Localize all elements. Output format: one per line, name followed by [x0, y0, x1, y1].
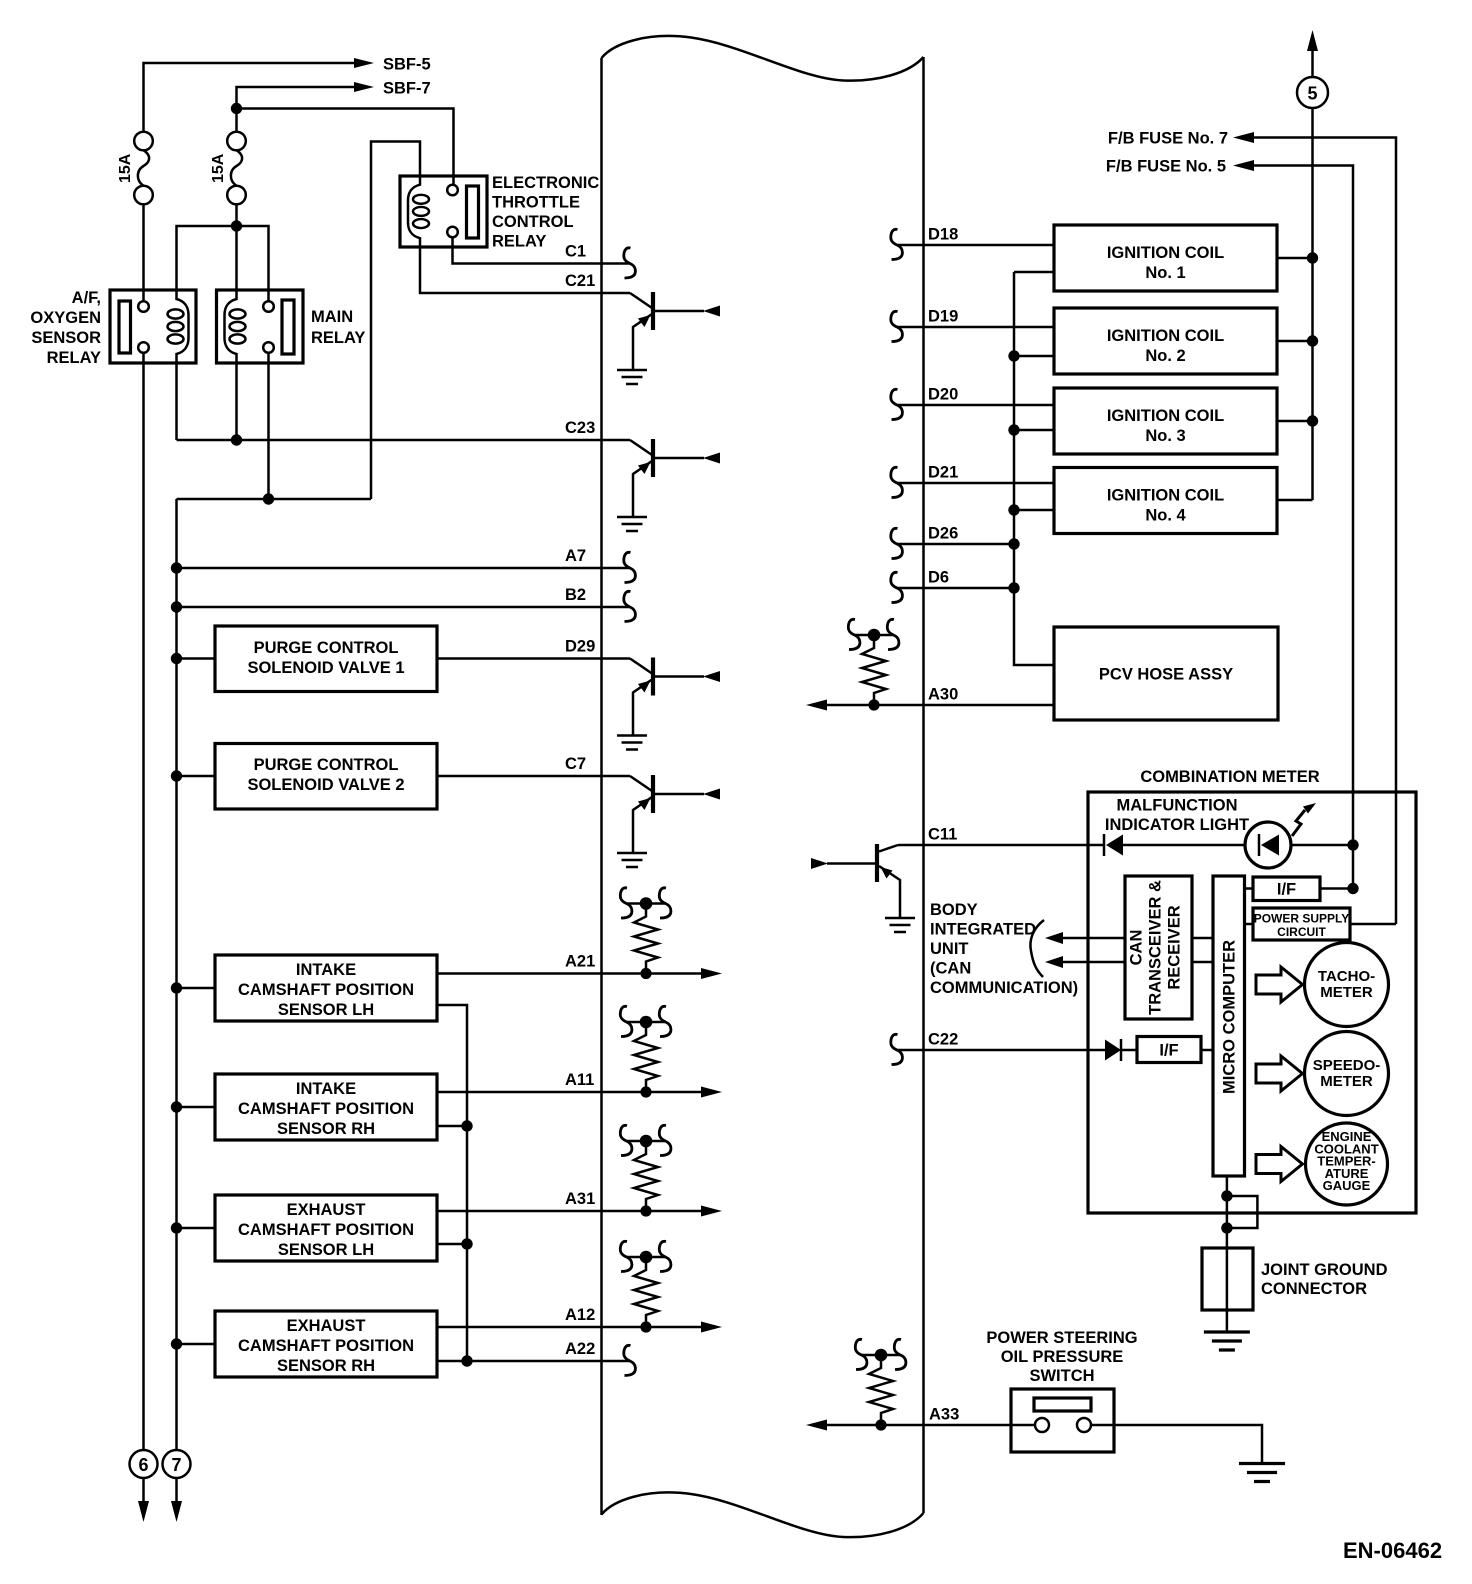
svg-text:MALFUNCTION: MALFUNCTION — [1117, 797, 1238, 815]
wire C21: ETC relay coil to ECM transistor — [420, 247, 630, 293]
svg-text:SENSOR LH: SENSOR LH — [278, 1241, 374, 1259]
svg-text:GAUGE: GAUGE — [1323, 1178, 1371, 1193]
wire A12 with arrow — [437, 1326, 702, 1329]
resistor pull-up at A11 — [620, 1006, 671, 1097]
relay K1: A/F, oxygen sensor relay — [110, 290, 196, 363]
fuse F1 15A — [117, 132, 153, 205]
svg-text:A30: A30 — [928, 686, 958, 704]
svg-text:I/F: I/F — [1159, 1042, 1178, 1060]
resistor pull-up at A31 — [620, 1125, 671, 1216]
wire D21 — [897, 482, 1054, 485]
wire C11 — [898, 844, 1104, 847]
svg-text:OIL PRESSURE: OIL PRESSURE — [1001, 1348, 1124, 1366]
svg-text:PURGE CONTROL: PURGE CONTROL — [254, 756, 399, 774]
wire D26 — [897, 543, 1014, 546]
gauge feed arrow speedometer — [1256, 1056, 1303, 1091]
wire switch to ground — [1114, 1425, 1262, 1464]
wire relay supply rail y=226 — [177, 226, 269, 302]
wire B2 — [177, 606, 631, 609]
svg-text:RELAY: RELAY — [492, 233, 546, 251]
wire SBF-5 feed from fuse 15A (1) — [144, 63, 358, 132]
node junction above meter connector — [1221, 1190, 1232, 1201]
svg-text:COMBINATION METER: COMBINATION METER — [1140, 768, 1319, 786]
wire C23 to ECM transistor — [177, 439, 631, 442]
svg-text:UNIT: UNIT — [930, 940, 969, 958]
resistor pull-up at A12 — [620, 1241, 671, 1332]
svg-text:PCV HOSE ASSY: PCV HOSE ASSY — [1099, 666, 1233, 684]
svg-text:SENSOR RH: SENSOR RH — [277, 1120, 375, 1138]
svg-text:C1: C1 — [565, 243, 586, 261]
node junction fuse F2 / relay coils — [231, 220, 242, 231]
wire A/F coil low side to node C23 — [175, 363, 178, 440]
wire C1: ETC relay contact to ECM — [453, 238, 631, 264]
svg-text:A21: A21 — [565, 953, 595, 971]
gauge feed arrow tachometer — [1256, 967, 1303, 1002]
svg-text:POWER SUPPLY: POWER SUPPLY — [1254, 912, 1350, 926]
node junction below meter connector — [1221, 1222, 1232, 1233]
svg-text:EXHAUST: EXHAUST — [287, 1201, 366, 1219]
transistor Q4 (C7 driver) — [617, 775, 720, 867]
diode D2 on C22 line — [1105, 1039, 1121, 1061]
wire CAN high to body integrated unit — [1062, 937, 1125, 940]
svg-text:SOLENOID VALVE 2: SOLENOID VALVE 2 — [247, 776, 404, 794]
transistor Q3 (D29 driver) — [617, 658, 720, 750]
svg-text:15A: 15A — [117, 153, 134, 183]
meter connector loop — [1227, 1196, 1258, 1228]
interface box I/F (MIL) — [1253, 877, 1320, 901]
intake camshaft position sensor LH — [171, 955, 437, 1021]
svg-text:OXYGEN: OXYGEN — [30, 309, 101, 327]
wire coil4 to supply bus — [1277, 499, 1313, 502]
svg-text:5: 5 — [1307, 84, 1317, 104]
wire A30 with arrow out — [826, 704, 1054, 707]
wire A11 with arrow — [437, 1091, 702, 1094]
svg-text:SOLENOID VALVE 1: SOLENOID VALVE 1 — [247, 659, 404, 677]
wire A22 — [437, 1360, 630, 1363]
svg-text:SBF-5: SBF-5 — [383, 56, 431, 74]
svg-text:COMMUNICATION): COMMUNICATION) — [930, 979, 1078, 997]
power supply circuit box — [1253, 908, 1350, 940]
svg-text:IGNITION COIL: IGNITION COIL — [1107, 407, 1224, 425]
wire D20 — [897, 404, 1054, 407]
svg-text:15A: 15A — [210, 153, 227, 183]
wire D6 — [897, 587, 1014, 590]
svg-text:BODY: BODY — [930, 901, 978, 919]
wire fuse F1 to A/F relay contact — [142, 204, 145, 302]
svg-text:CAMSHAFT POSITION: CAMSHAFT POSITION — [238, 1100, 414, 1118]
wire fuse F2 down to MAIN relay coil — [235, 204, 238, 290]
wire coil3 return — [1014, 429, 1054, 432]
wire F/B FUSE No.5 — [1252, 166, 1353, 889]
exhaust camshaft position sensor LH — [171, 1195, 437, 1261]
exhaust camshaft position sensor RH — [171, 1311, 437, 1377]
wire C11 to MIL lamp — [1123, 844, 1245, 847]
svg-text:C11: C11 — [928, 826, 957, 844]
diode D1 on C11 line — [1104, 834, 1123, 856]
ignition coil No.2 — [1054, 308, 1277, 374]
resistor pull-up at A21 — [620, 888, 671, 979]
ground (joint ground connector) — [1204, 1332, 1250, 1350]
purge control solenoid valve 2 — [171, 744, 437, 810]
purge control solenoid valve 1 — [171, 626, 437, 692]
svg-text:A/F,: A/F, — [72, 289, 101, 307]
CAN transceiver and receiver box — [1125, 876, 1192, 1019]
svg-text:RELAY: RELAY — [311, 329, 365, 347]
svg-text:CAN: CAN — [1128, 930, 1146, 966]
wire CAN low to body integrated unit — [1062, 961, 1125, 964]
arrow down from circle 7 — [175, 1478, 178, 1503]
svg-text:THROTTLE: THROTTLE — [492, 194, 580, 212]
brace for CAN communication pair — [1030, 920, 1044, 977]
wire D29 — [437, 657, 630, 660]
svg-text:D18: D18 — [928, 226, 958, 244]
svg-text:ELECTRONIC: ELECTRONIC — [492, 174, 599, 192]
connector circle 6 — [130, 1450, 158, 1478]
svg-text:CONNECTOR: CONNECTOR — [1261, 1280, 1367, 1298]
svg-text:A11: A11 — [565, 1071, 594, 1089]
svg-text:IGNITION COIL: IGNITION COIL — [1107, 327, 1224, 345]
wire D18 — [897, 244, 1054, 247]
wire F/B FUSE No.7 — [1252, 138, 1396, 925]
svg-text:A22: A22 — [565, 1340, 595, 1358]
svg-text:SENSOR: SENSOR — [31, 329, 101, 347]
PCV hose assy box — [1054, 627, 1278, 720]
svg-text:SWITCH: SWITCH — [1029, 1367, 1094, 1385]
intake camshaft position sensor RH — [171, 1074, 437, 1140]
wire C22 — [897, 1049, 1105, 1052]
svg-text:METER: METER — [1320, 984, 1373, 1001]
transistor Q5 (C11 driver) — [811, 844, 915, 932]
svg-text:B2: B2 — [565, 586, 586, 604]
svg-text:I/F: I/F — [1277, 881, 1296, 899]
arrow to SBF-5 — [354, 58, 374, 68]
svg-text:INTAKE: INTAKE — [296, 1080, 356, 1098]
svg-text:CAMSHAFT POSITION: CAMSHAFT POSITION — [238, 1337, 414, 1355]
wire A7 — [177, 567, 631, 570]
wire MAIN relay contact to sensor supply rail — [267, 353, 270, 499]
wire power supply circuit to F/B fuse No.7 — [1350, 923, 1396, 926]
joint ground connector box — [1202, 1248, 1253, 1310]
svg-text:D6: D6 — [928, 569, 949, 587]
wire SBF-7 feed from fuse 15A (2) — [237, 87, 358, 132]
svg-text:IGNITION COIL: IGNITION COIL — [1107, 244, 1224, 262]
wire ignition return bus to PCV — [1014, 272, 1054, 665]
svg-text:INTAKE: INTAKE — [296, 961, 356, 979]
svg-text:TACHO-: TACHO- — [1318, 968, 1375, 985]
speedometer gauge — [1305, 1032, 1389, 1116]
connector circle 7 — [163, 1450, 191, 1478]
svg-text:(CAN: (CAN — [930, 960, 971, 978]
ignition coil No.4 — [1054, 468, 1277, 534]
svg-text:PURGE CONTROL: PURGE CONTROL — [254, 639, 399, 657]
wire I/F C22 to micro computer — [1121, 1049, 1213, 1052]
connector circle 5 — [1297, 77, 1328, 108]
wire ignition coil supply bus — [1311, 108, 1314, 500]
svg-text:INDICATOR LIGHT: INDICATOR LIGHT — [1105, 816, 1249, 834]
arrow down from circle 6 — [142, 1478, 145, 1503]
fuse F2 15A — [210, 132, 246, 205]
svg-text:No. 1: No. 1 — [1145, 264, 1185, 282]
svg-text:SENSOR RH: SENSOR RH — [277, 1357, 375, 1375]
power steering oil pressure switch — [1011, 1389, 1114, 1452]
svg-text:RECEIVER: RECEIVER — [1166, 905, 1184, 989]
tachometer gauge — [1305, 943, 1389, 1027]
svg-text:No. 3: No. 3 — [1145, 427, 1185, 445]
svg-text:No. 4: No. 4 — [1145, 507, 1186, 525]
wire CAN to micro computer (2) — [1192, 938, 1213, 962]
svg-text:EN-06462: EN-06462 — [1343, 1538, 1442, 1563]
arrow up to page connector 5 — [1311, 50, 1314, 77]
relay K3: electronic throttle control relay — [400, 176, 487, 247]
wire sensor shield bus — [437, 1005, 467, 1361]
micro computer box — [1213, 876, 1245, 1176]
wire coil1 trigger return — [1014, 271, 1054, 274]
svg-text:C22: C22 — [928, 1031, 958, 1049]
svg-text:RELAY: RELAY — [47, 349, 101, 367]
wire micro computer ground lead — [1226, 1176, 1229, 1332]
relay K2: MAIN relay — [217, 290, 304, 363]
wire coil1 to supply bus — [1277, 257, 1313, 260]
wire sensor RH shield join — [437, 1125, 467, 1128]
wire riser to ETC relay coil — [371, 142, 420, 500]
wire MAIN coil low side to node C23 — [235, 363, 238, 440]
wire sensor supply rail y=499 — [177, 498, 372, 501]
gauge feed arrow coolant gauge — [1256, 1147, 1303, 1182]
svg-text:C21: C21 — [565, 272, 595, 290]
combination meter box — [1088, 792, 1416, 1213]
break at C1 — [624, 248, 636, 278]
ground (power steering switch) — [1239, 1464, 1285, 1482]
interface box I/F (C22) — [1137, 1037, 1201, 1063]
svg-text:C7: C7 — [565, 755, 586, 773]
svg-text:CONTROL: CONTROL — [492, 213, 574, 231]
svg-text:EXHAUST: EXHAUST — [287, 1317, 366, 1335]
wire C7 — [437, 775, 630, 778]
svg-text:D19: D19 — [928, 308, 958, 326]
svg-text:CAMSHAFT POSITION: CAMSHAFT POSITION — [238, 1221, 414, 1239]
svg-text:METER: METER — [1320, 1073, 1373, 1090]
engine coolant temperature gauge — [1306, 1123, 1388, 1205]
svg-text:F/B FUSE No. 5: F/B FUSE No. 5 — [1106, 158, 1226, 176]
svg-text:C23: C23 — [565, 419, 595, 437]
transistor Q2 (C23 driver) — [617, 439, 720, 531]
svg-text:SPEEDO-: SPEEDO- — [1313, 1057, 1381, 1074]
svg-text:CIRCUIT: CIRCUIT — [1277, 925, 1326, 939]
wire A31 with arrow — [437, 1210, 702, 1213]
svg-text:CAMSHAFT POSITION: CAMSHAFT POSITION — [238, 981, 414, 999]
wire D19 — [897, 326, 1054, 329]
svg-text:A12: A12 — [565, 1306, 595, 1324]
node junction SBF-7 / ETC relay branch — [231, 103, 242, 114]
svg-text:7: 7 — [171, 1455, 181, 1475]
svg-text:D21: D21 — [928, 464, 958, 482]
wire MIL to F/B fuse No.5 feed — [1291, 844, 1353, 847]
svg-text:6: 6 — [138, 1455, 148, 1475]
ignition coil No.1 — [1054, 225, 1277, 291]
wire A21 with arrow — [437, 972, 702, 975]
wire power supply circuit to micro computer — [1245, 923, 1254, 926]
wire I/F to supply — [1320, 887, 1353, 890]
wire branch to electronic throttle control relay contact — [237, 109, 454, 186]
malfunction indicator light lamp (LED) — [1245, 803, 1316, 868]
svg-text:D20: D20 — [928, 386, 958, 404]
svg-text:MAIN: MAIN — [311, 308, 353, 326]
ECM boundary box with torn edges — [602, 36, 924, 1537]
svg-text:SENSOR LH: SENSOR LH — [278, 1001, 374, 1019]
svg-text:SBF-7: SBF-7 — [383, 80, 431, 98]
wire coil2 to supply bus — [1277, 340, 1313, 343]
resistor pull-up at A30 — [848, 619, 899, 710]
svg-text:D29: D29 — [565, 638, 595, 656]
svg-text:MICRO COMPUTER: MICRO COMPUTER — [1221, 940, 1239, 1094]
svg-text:TRANSCEIVER &: TRANSCEIVER & — [1147, 880, 1165, 1015]
svg-text:IGNITION COIL: IGNITION COIL — [1107, 487, 1224, 505]
arrow to SBF-7 — [354, 82, 374, 92]
svg-text:INTEGRATED: INTEGRATED — [930, 921, 1036, 939]
svg-text:JOINT GROUND: JOINT GROUND — [1261, 1261, 1388, 1279]
svg-text:No. 2: No. 2 — [1145, 347, 1185, 365]
svg-text:A7: A7 — [565, 547, 586, 565]
svg-text:D26: D26 — [928, 525, 958, 543]
wire A/F relay contact to circle 6 — [142, 353, 145, 1450]
svg-text:A33: A33 — [929, 1406, 959, 1424]
resistor pull-up at A33 — [855, 1339, 906, 1430]
wire I/F to micro computer — [1245, 887, 1254, 890]
ignition coil No.3 — [1054, 388, 1277, 454]
node junction sensor supply rail — [263, 493, 274, 504]
wire A33 with arrow out — [826, 1424, 1011, 1427]
node junction on C23 line — [231, 434, 242, 445]
svg-text:POWER STEERING: POWER STEERING — [986, 1329, 1137, 1347]
wire coil3 to supply bus — [1277, 420, 1313, 423]
wire coil4 return — [1014, 509, 1054, 512]
svg-text:F/B FUSE No. 7: F/B FUSE No. 7 — [1108, 130, 1228, 148]
wire exhaust LH shield join — [437, 1243, 467, 1246]
wire coil2 return — [1014, 355, 1054, 358]
wire left sensor bus — [175, 499, 178, 1450]
transistor Q1 (C21 driver) — [617, 292, 720, 384]
svg-text:A31: A31 — [565, 1190, 595, 1208]
